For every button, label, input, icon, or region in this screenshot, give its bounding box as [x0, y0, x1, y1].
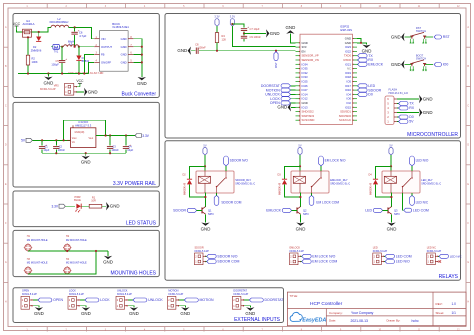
svg-text:D0: D0 [409, 115, 414, 119]
fuse G4 AC0401A [23, 29, 32, 37]
title block Date [329, 319, 368, 323]
svg-text:GND: GND [391, 62, 401, 67]
svg-text:5V: 5V [203, 143, 206, 147]
svg-text:C9 100nF: C9 100nF [250, 35, 262, 39]
svg-text:DOORSTAT: DOORSTAT [265, 298, 285, 302]
svg-text:10R: 10R [91, 200, 96, 203]
svg-text:ON/OFF: ON/OFF [101, 61, 112, 65]
svg-text:Drawn By:: Drawn By: [387, 319, 401, 323]
junction rail R2 [27, 72, 29, 74]
inductor L1 [64, 45, 79, 47]
ground flag U1 left [291, 106, 296, 108]
svg-text:MOTION: MOTION [200, 298, 214, 302]
label BUCK XL1509-5.0E1 [112, 22, 129, 29]
svg-text:GND: GND [362, 48, 372, 53]
svg-text:SDOOR: SDOOR [173, 209, 186, 213]
wire gnd pin 7 [133, 46, 141, 48]
wire gnd pin 6 [133, 54, 141, 56]
net port MOTION [184, 298, 214, 302]
connector EMLOCK (relay out) [290, 253, 302, 265]
svg-text:GND: GND [137, 81, 147, 86]
capacitor C1 leads [41, 140, 43, 145]
svg-text:12K: 12K [222, 38, 227, 42]
wire N/C to port (LED_RLY) [411, 193, 413, 195]
svg-text:GND: GND [286, 25, 296, 30]
svg-text:LED N/O: LED N/O [396, 260, 410, 264]
varistor TV1 [53, 44, 60, 49]
ground flag LOCK [81, 307, 91, 316]
capacitor C6 [71, 29, 79, 34]
wire base (LED_RLY) [383, 209, 388, 211]
junction holes h2 [66, 250, 68, 252]
wire DOORSTAT pin1 to gnd [244, 306, 250, 308]
wire emitter to gnd (LED_RLY) [391, 214, 393, 222]
wire relay coil to collector (LED_RLY) [390, 193, 392, 207]
svg-text:MMSD4148: MMSD4148 [185, 182, 187, 195]
wire flyback diode bottom (SDOOR_RLY) [190, 184, 206, 197]
wire relay coil to collector (SDOOR_RLY) [204, 193, 206, 207]
wire COM down (LED_RLY) [403, 193, 404, 210]
label H2 M2 MOUNT-HOLE [66, 235, 87, 242]
net port SDOOR N/O [224, 156, 249, 166]
net tag LED (base) [365, 208, 383, 212]
svg-text:EMLOCK_RLY: EMLOCK_RLY [330, 178, 348, 182]
wire base (EMLOCK_RLY) [292, 209, 297, 211]
svg-text:Q2: Q2 [303, 208, 307, 212]
label EMLOCK KF301-5.0-2P [290, 247, 305, 253]
wire 3.3V to LED [65, 205, 75, 207]
svg-text:Company:: Company: [329, 311, 343, 315]
title block REV [436, 302, 457, 306]
wire C9 stub [243, 39, 245, 41]
svg-text:100nF: 100nF [111, 148, 119, 152]
ground flag power rail [85, 153, 87, 156]
label LED_RLY [421, 178, 441, 186]
ground flag MOTION [180, 307, 190, 316]
net tag RST (vertical) [274, 52, 278, 69]
svg-text:5V: 5V [389, 143, 392, 147]
wire FB routing [84, 55, 94, 74]
svg-text:GND: GND [423, 96, 433, 101]
svg-text:Q1: Q1 [208, 208, 212, 212]
svg-text:NPN: NPN [303, 212, 309, 216]
svg-text:NPN: NPN [394, 212, 400, 216]
label RST SWITCH [416, 26, 426, 33]
net tag UNLOCK [291, 93, 296, 95]
ground flag EMLOCK_RLY [296, 223, 306, 232]
ground flag led [106, 202, 120, 210]
svg-text:GND(AD): GND(AD) [75, 131, 85, 134]
label FLASH HDR-M-2.54_1x6 [389, 88, 409, 96]
label DOORSTAT KF301-5.0-2P [233, 290, 248, 296]
svg-text:KF301-5.0-2P: KF301-5.0-2P [168, 293, 183, 296]
svg-text:SWITCH: SWITCH [416, 57, 426, 61]
svg-text:R4: R4 [222, 34, 226, 38]
junction rail g1 [55, 152, 57, 154]
svg-text:ZMM5V6: ZMM5V6 [31, 48, 42, 52]
wire output rail [51, 46, 53, 48]
label L2 600C4B100MHz [49, 17, 69, 24]
power flag VCC (buck output) [76, 86, 80, 88]
U1 pins left [296, 41, 319, 122]
relay SDOOR_RLY SRD-05VDC-SL-C [196, 171, 234, 193]
junction output/C5 [61, 46, 63, 48]
wire VCC to fuse [17, 29, 23, 32]
svg-text:H: H [5, 300, 7, 303]
junction loop input [63, 139, 65, 141]
label MOTION KF301-5.0-2P [168, 290, 183, 296]
svg-text:GND: GND [129, 311, 139, 316]
diode D3 MMSD4148 [282, 179, 287, 184]
svg-text:KF301-5.0-2P: KF301-5.0-2P [22, 293, 37, 296]
svg-text:3.3V: 3.3V [142, 134, 149, 138]
junction C2 [55, 139, 57, 141]
svg-text:Q3: Q3 [394, 208, 398, 212]
junction fuse bottom [27, 36, 29, 38]
label C8 100nF [195, 42, 206, 49]
svg-text:TV1: TV1 [54, 51, 59, 54]
label UNLOCK KF301-5.0-2P [117, 290, 132, 296]
label C2 100nF [58, 145, 66, 153]
svg-text:LED COM: LED COM [396, 255, 412, 259]
diode D1 leads [78, 47, 80, 56]
net tag IO0 [434, 63, 448, 67]
zener diode D2 branch wire [38, 32, 40, 37]
switch BOOT [405, 60, 434, 71]
svg-text:Vout: Vout [89, 137, 94, 140]
svg-text:SDOOR COM: SDOOR COM [217, 260, 239, 264]
svg-text:+: + [65, 57, 67, 61]
label H1 M2 MOUNT-HOLE [27, 235, 48, 242]
wire gnd to U1 GND pin [290, 33, 295, 43]
section box External Inputs [13, 288, 284, 323]
inductor L2 [51, 25, 69, 27]
wire MOTION pin1 to gnd [179, 306, 185, 308]
net port UNLOCK [133, 298, 163, 302]
svg-text:ESP-32S: ESP-32S [341, 28, 353, 32]
svg-text:OUTPUT: OUTPUT [101, 45, 112, 49]
junction rail g3 [109, 152, 111, 154]
label D4 MMSD4148 [369, 173, 373, 195]
svg-text:3.3V: 3.3V [230, 15, 236, 19]
wire decoupling gnd [244, 32, 266, 34]
svg-text:TX: TX [409, 102, 414, 106]
svg-text:600C4B100MHz: 600C4B100MHz [49, 20, 69, 24]
svg-text:EMLOCK: EMLOCK [368, 63, 383, 67]
svg-text:GND: GND [44, 80, 54, 85]
wire OPEN pin1 to gnd [33, 306, 39, 308]
wire flyback diode bottom (LED_RLY) [376, 184, 392, 197]
wire base (SDOOR_RLY) [197, 209, 202, 211]
svg-text:KF301-5.0-2P: KF301-5.0-2P [290, 251, 305, 253]
svg-text:3.3V: 3.3V [214, 15, 220, 19]
wire fuse to L2 [31, 27, 51, 32]
label OPEN KF301-5.0-2P [22, 290, 37, 296]
mount hole H4 [63, 266, 71, 274]
wire N/O port to relay (EMLOCK_RLY) [320, 166, 322, 171]
wire relay coil to collector (EMLOCK_RLY) [299, 193, 301, 207]
capacitor C4 10uF [123, 143, 131, 149]
wire GND pins bus [133, 39, 141, 77]
svg-text:EM LOCK N/O: EM LOCK N/O [325, 158, 346, 162]
junction 3.3V / decoupling [231, 23, 233, 25]
net port 3.3V led [51, 204, 65, 208]
svg-text:R2: R2 [32, 56, 36, 60]
svg-text:4.7µF: 4.7µF [79, 34, 86, 38]
junction collector/diode (LED_RLY) [390, 196, 392, 198]
svg-text:5V: 5V [298, 143, 301, 147]
connector OPEN [21, 296, 33, 309]
ground flag SDOOR_RLY [201, 223, 211, 232]
wire MOTION pin2 to port [179, 299, 184, 301]
net port SDOOR N/O (conn) [206, 255, 207, 257]
label C4 10uF [127, 145, 133, 153]
connector DOORSTAT [232, 296, 244, 309]
svg-text:GND: GND [296, 226, 306, 231]
svg-text:RX: RX [409, 106, 415, 110]
wire flyback diode bottom (EMLOCK_RLY) [285, 184, 301, 197]
relay LED_RLY SRD-05VDC-SL-C [382, 171, 420, 193]
wire LED to R1 [82, 205, 90, 207]
wire emitter to gnd (EMLOCK_RLY) [300, 214, 302, 222]
connector P1 flash header [385, 96, 397, 125]
section box Relays [165, 141, 461, 280]
svg-text:MMSD4148: MMSD4148 [280, 182, 282, 195]
svg-text:HDR-M-2.54_1x6: HDR-M-2.54_1x6 [389, 92, 409, 95]
junction collector/diode (SDOOR_RLY) [204, 196, 206, 198]
connector SDOOR (relay out) [195, 253, 207, 265]
power flag VCC (buck input) [13, 22, 21, 30]
svg-text:SRD-05VDC-SL-C: SRD-05VDC-SL-C [235, 183, 255, 186]
svg-text:2021-08-13: 2021-08-13 [351, 319, 368, 323]
transistor Q1 NPN [202, 207, 206, 215]
wire UNLOCK pin2 to port [128, 299, 133, 301]
junction rail D1 [78, 72, 80, 74]
diode D4 MMSD4148 [373, 179, 378, 184]
svg-text:100K: 100K [32, 60, 38, 64]
capacitor C2 100nF [53, 147, 59, 149]
junction collector/diode (EMLOCK_RLY) [299, 196, 301, 198]
svg-text:1.0: 1.0 [452, 302, 457, 306]
power flag 5V (SDOOR_RLY) [203, 143, 207, 155]
wire C7 to gnd net [243, 32, 245, 36]
svg-text:REV:: REV: [436, 302, 443, 306]
title block Sheet [436, 311, 457, 315]
svg-text:GND: GND [121, 53, 127, 57]
junction 5V/diode (EMLOCK_RLY) [299, 165, 301, 167]
svg-text:LED STATUS: LED STATUS [126, 221, 157, 227]
junction C4 [125, 134, 127, 136]
capacitor C5 leads [61, 47, 63, 60]
svg-text:KF301-5.0-2P: KF301-5.0-2P [233, 293, 248, 296]
wire 5V to relay coil (SDOOR_RLY) [204, 155, 206, 171]
connector UNLOCK [116, 296, 128, 309]
label ESP32 ESP-32S [341, 24, 353, 31]
label C6 4.7uF [79, 31, 87, 39]
svg-text:Vout: Vout [72, 137, 77, 140]
label H3 M2 MOUNT-HOLE [27, 258, 48, 265]
net port 3.3V output [135, 134, 150, 138]
transistor Q2 NPN [297, 207, 301, 215]
svg-text:SCS/CMD: SCS/CMD [302, 118, 315, 122]
wire R4 to EN net [216, 43, 218, 51]
svg-text:TITLE:: TITLE: [290, 294, 299, 298]
connector LED NC [427, 253, 439, 265]
svg-text:LED: LED [365, 209, 372, 213]
svg-text:RST: RST [443, 35, 451, 39]
label PWR BLUE [74, 195, 81, 202]
svg-text:AMS1117-3.3: AMS1117-3.3 [75, 123, 92, 127]
svg-text:10µF: 10µF [127, 148, 133, 152]
label D2 MMSD4148 [183, 173, 187, 195]
svg-text:LED: LED [373, 247, 378, 250]
ground flag decoupling [266, 29, 280, 37]
wire N/O port to relay (LED_RLY) [411, 166, 413, 171]
svg-text:G: G [467, 261, 469, 264]
svg-text:GND: GND [121, 61, 127, 65]
section box Microcontroller [165, 14, 461, 139]
junction output/D1 [78, 46, 80, 48]
svg-text:G: G [5, 261, 7, 264]
svg-text:EXTERNAL INPUTS: EXTERNAL INPUTS [234, 317, 281, 323]
net tag TX (U1) [356, 55, 359, 57]
ground flag LED_RLY [387, 223, 397, 232]
ground flag OPEN [34, 307, 44, 316]
junction C6 top [74, 26, 76, 28]
wire emitter to gnd (SDOOR_RLY) [205, 214, 207, 222]
LED PWR BLUE [75, 204, 81, 213]
svg-text:SCK/CLK: SCK/CLK [339, 118, 351, 122]
net port LED N/O (conn) [384, 261, 385, 263]
wire L1 to OUTPUT pin [79, 46, 95, 48]
svg-text:KF301-5.0-2P: KF301-5.0-2P [195, 251, 210, 253]
wire 5V to relay coil (EMLOCK_RLY) [299, 155, 301, 171]
svg-text:OPEN: OPEN [53, 298, 63, 302]
connector LED (relay out) [373, 253, 385, 265]
svg-text:NPN: NPN [208, 212, 214, 216]
net port EM LOCK COM (conn) [301, 261, 302, 263]
junction rail g2 [85, 152, 87, 154]
net tag LOCK [291, 98, 296, 100]
wire OPEN pin2 to port [33, 299, 38, 301]
svg-text:LED_RLY: LED_RLY [421, 178, 433, 182]
transistor Q3 NPN [388, 207, 392, 215]
junction fuse/D2 [38, 31, 40, 33]
regulator U2 AMS1117-3.3 [67, 125, 100, 147]
svg-text:KF301-5.0-2P: KF301-5.0-2P [117, 293, 132, 296]
svg-text:Your Company: Your Company [351, 311, 374, 315]
net port LOCK [85, 298, 110, 302]
wire flyback diode top (EMLOCK_RLY) [285, 166, 301, 179]
svg-text:LOCK: LOCK [100, 298, 110, 302]
svg-text:M2 MOUNT-HOLE: M2 MOUNT-HOLE [66, 239, 87, 242]
capacitor C9 100nF [241, 36, 247, 38]
svg-text:SDOOR N/O: SDOOR N/O [230, 158, 249, 162]
EasyEDA logo [290, 312, 326, 323]
connector LOCK [68, 296, 80, 309]
diode D2 MMSD4148 [187, 179, 192, 184]
connector VR5 KF301-5.0-2P [65, 83, 78, 95]
wire decoupling branch [232, 24, 244, 28]
svg-text:VCC: VCC [76, 79, 84, 83]
wire C8/EN net [199, 50, 296, 52]
net port SDOOR COM [214, 195, 242, 205]
label AMS1117-3.3 [75, 120, 92, 127]
section box Mounting Holes [13, 230, 159, 276]
wire flyback diode top (LED_RLY) [376, 166, 392, 179]
net port EM LOCK N/O [319, 156, 346, 166]
relay EMLOCK_RLY SRD-05VDC-SL-C [291, 171, 329, 193]
junction holes bus [95, 250, 97, 252]
svg-text:GND: GND [245, 311, 255, 316]
svg-text:FLASH: FLASH [389, 88, 398, 92]
capacitor C6 leads [74, 27, 76, 31]
label R4 12K [222, 34, 227, 42]
label R2 100K [32, 56, 38, 63]
junction Vout loop [105, 134, 107, 136]
power flag 5V (EMLOCK_RLY) [298, 143, 302, 155]
svg-text:GND: GND [277, 105, 287, 110]
resistor R1 [89, 204, 102, 208]
svg-text:C1: C1 [44, 145, 48, 149]
junction 5V/diode (SDOOR_RLY) [204, 165, 206, 167]
svg-text:LED N/C: LED N/C [416, 201, 429, 205]
svg-text:KF301-5.0-2P: KF301-5.0-2P [373, 251, 388, 253]
wire L2 to VIN pin [69, 27, 95, 38]
capacitor C7 10uF [241, 25, 249, 31]
svg-text:GND: GND [103, 260, 113, 265]
wire N/O port to relay (SDOOR_RLY) [225, 166, 227, 171]
net port EM LOCK COM [309, 195, 339, 205]
junction output/C6 [74, 46, 76, 48]
net tag EMLOCK (U1) [356, 63, 359, 65]
net tag OPEN (U1) [291, 102, 296, 104]
junction rail FB [83, 72, 85, 74]
label LED NC KF301-5.0-2P [427, 247, 442, 253]
net port LED N/C (conn) [438, 255, 439, 257]
label BOOT SWITCH [416, 53, 426, 60]
junction gnd bus 1 [141, 46, 143, 48]
net port LED N/O [410, 156, 429, 166]
wire COM to port (SDOOR_RLY) [216, 193, 218, 195]
svg-text:MOUNTING HOLES: MOUNTING HOLES [110, 271, 156, 277]
power flag 5V (LED_RLY) [389, 143, 393, 155]
svg-text:GND: GND [423, 110, 433, 115]
ground flag UNLOCK [129, 307, 139, 316]
net port 5V input [21, 138, 32, 142]
svg-text:10µF: 10µF [43, 148, 49, 152]
svg-text:SDOOR: SDOOR [195, 247, 204, 250]
wire 3.3V to R4 [216, 26, 218, 32]
net port SDOOR COM (conn) [206, 261, 207, 263]
net tag D0 (flash) [397, 116, 399, 118]
ground flag U1 right [357, 39, 367, 45]
wire LOCK pin2 to port [80, 299, 85, 301]
net tag RX (U1) [356, 59, 359, 61]
ground flag DOORSTAT [245, 307, 255, 316]
ground flag RST switch [391, 33, 405, 41]
no-connect marker LED NC pin1 [439, 260, 442, 263]
svg-text:SDOOR COM: SDOOR COM [221, 201, 241, 205]
label G4 AC0401A [23, 19, 35, 26]
zener diode D2 ZMM5V6 [36, 37, 41, 42]
label D2 ZMM5V6 [31, 45, 42, 52]
capacitor C5 100uF [59, 57, 67, 63]
wire R1 to GND [102, 205, 106, 207]
title block Company [329, 311, 374, 315]
svg-text:hchc: hchc [412, 319, 419, 323]
ground flag buck right [137, 77, 147, 86]
